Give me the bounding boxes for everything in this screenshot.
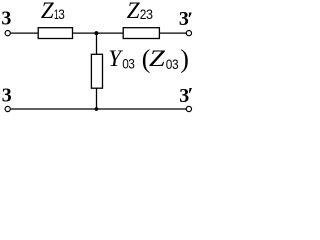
svg-text:3: 3 (172, 57, 179, 72)
node 3' (bottom-right terminal label) (179, 84, 193, 107)
terminal 3' (top-right open circle) (186, 30, 191, 35)
svg-text:Y: Y (108, 46, 123, 71)
svg-text:3: 3 (146, 7, 153, 22)
junction dot (top node) (94, 31, 98, 35)
svg-text:Z: Z (149, 46, 165, 71)
terminal 3' (bottom-right open circle) (186, 106, 191, 111)
label Y03 (Z03) (108, 45, 189, 74)
svg-text:′: ′ (187, 9, 193, 31)
wire Z23 to terminal 3' (159, 32, 186, 34)
label Z13 (41, 0, 65, 23)
shunt admittance Y03 box (91, 54, 102, 88)
terminal 3 (top-left open circle) (5, 30, 10, 35)
wire top node to Y03 box (96, 33, 98, 55)
terminal 3 (bottom-left open circle) (5, 106, 10, 111)
svg-text:3: 3 (1, 7, 11, 29)
svg-text:Z: Z (127, 0, 140, 23)
wire bottom rail left segment (11, 108, 97, 110)
svg-text:3: 3 (58, 7, 65, 22)
svg-text:3: 3 (128, 57, 135, 72)
svg-text:Z: Z (41, 0, 54, 23)
junction dot (bottom node) (95, 107, 99, 111)
wire Y03 box to bottom node (96, 88, 98, 109)
wire Z13 to Z23 (72, 32, 123, 34)
svg-text:′: ′ (188, 84, 194, 106)
node 3' (top-right terminal label) (179, 8, 193, 30)
label Z23 (127, 0, 153, 23)
wire bottom rail right segment (96, 108, 186, 110)
resistor Z13 (series impedance box) (38, 28, 72, 39)
wire terminal-3 to Z13 (11, 32, 39, 34)
svg-text:): ) (180, 45, 189, 74)
svg-text:3: 3 (2, 85, 12, 107)
resistor Z23 (series impedance box) (123, 28, 159, 39)
